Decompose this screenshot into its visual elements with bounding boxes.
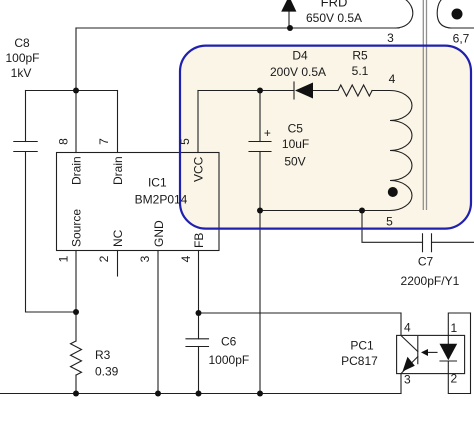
wire: R5 to winding 4: [372, 90, 390, 92]
capacitor C6 plates: [186, 339, 209, 347]
wire: C6 bottom lead: [198, 347, 200, 394]
optocoupler PC1 body: [397, 335, 465, 373]
svg-text:2: 2: [97, 255, 111, 262]
resistor R5: [338, 85, 372, 96]
polarity dot secondary winding: [452, 9, 463, 20]
svg-text:Drain: Drain: [70, 156, 84, 185]
diode D4 cathode bar: [293, 82, 295, 99]
svg-text:FB: FB: [192, 233, 206, 248]
diode FRD stem: [288, 12, 290, 28]
wire: top rail drain to primary: [76, 27, 399, 29]
svg-text:C7: C7: [418, 255, 434, 269]
wire: opto pin3 lead: [400, 374, 402, 394]
wire: drain horizontal rail: [26, 90, 118, 92]
svg-text:3: 3: [138, 255, 152, 262]
svg-text:BM2P014: BM2P014: [135, 193, 188, 207]
junction: C5 top: [257, 88, 263, 94]
blue region outline: [180, 46, 471, 229]
wire: pin7 riser: [117, 91, 119, 153]
wire: drain riser top: [75, 28, 77, 91]
svg-text:6,7: 6,7: [453, 32, 470, 46]
svg-text:5.1: 5.1: [352, 64, 369, 78]
svg-text:2: 2: [451, 372, 458, 386]
transformer primary winding end 3: [396, 0, 413, 28]
wire: C8 top lead: [25, 91, 27, 142]
wire: pin4 FB down: [198, 251, 200, 339]
svg-text:0.39: 0.39: [95, 365, 119, 379]
opto phototransistor bar: [417, 337, 419, 364]
svg-text:C5: C5: [288, 122, 304, 136]
opto LED leads: [447, 335, 449, 373]
opto LED cathode bar: [440, 360, 457, 362]
svg-text:4: 4: [179, 255, 193, 262]
resistor R3: [71, 341, 82, 375]
svg-text:5: 5: [178, 138, 192, 145]
svg-text:R3: R3: [95, 348, 111, 362]
svg-text:200V 0.5A: 200V 0.5A: [270, 65, 326, 79]
svg-text:IC1: IC1: [148, 176, 167, 190]
svg-text:3: 3: [404, 373, 411, 387]
svg-text:1000pF: 1000pF: [209, 353, 250, 367]
svg-text:VCC: VCC: [192, 156, 206, 182]
wire: secondary 6,7 out: [449, 27, 474, 29]
wire: VCC riser pin5: [197, 91, 199, 153]
wire: winding 5 return: [260, 210, 390, 212]
svg-text:Drain: Drain: [111, 156, 125, 185]
wire: R3 bottom: [75, 375, 77, 394]
opto emitter arrow head: [403, 357, 415, 372]
opto collector lead: [402, 336, 418, 352]
svg-text:D4: D4: [292, 49, 308, 63]
opto LED body: [440, 344, 458, 361]
svg-text:C8: C8: [14, 36, 30, 50]
capacitor C5 plates: [249, 142, 271, 152]
junction: ground aux: [257, 391, 263, 397]
junction: FB node: [196, 310, 202, 316]
wire: C8 bottom lead down to source net: [26, 152, 77, 313]
opto light arrow shaft: [426, 351, 437, 353]
polarity dot aux winding: [388, 187, 398, 197]
opto emitter lead: [401, 357, 418, 374]
junction: C5 bottom: [257, 208, 263, 214]
junction: drain node: [73, 88, 79, 94]
junction: ground C6: [196, 391, 202, 397]
wire: VCC rail to D4: [198, 90, 294, 92]
wire: aux ground descender: [259, 211, 261, 394]
svg-text:PC1: PC1: [350, 339, 374, 353]
IC1 body: [57, 153, 220, 251]
svg-text:4: 4: [389, 72, 396, 86]
wire: ground bus: [0, 393, 401, 395]
wire: D4 to R5: [313, 90, 338, 92]
svg-text:1: 1: [57, 255, 71, 262]
svg-text:GND: GND: [152, 220, 166, 247]
capacitor C7: [423, 234, 432, 252]
wire: FB feedback rail to opto: [199, 312, 402, 314]
wire: C5 bottom lead: [259, 152, 261, 211]
junction: ground R3: [73, 391, 79, 397]
secondary/aux region highlight (blue rounded box with cream fill): [180, 46, 471, 229]
svg-text:100pF: 100pF: [5, 51, 39, 65]
svg-text:1: 1: [451, 321, 458, 335]
diode D4 body: [295, 83, 313, 99]
svg-text:5: 5: [386, 215, 393, 229]
diode FRD body: [281, 0, 296, 12]
wire: pin3 GND down: [157, 251, 159, 394]
svg-text:8: 8: [57, 138, 71, 145]
junction: source node: [73, 309, 79, 315]
svg-text:3: 3: [387, 31, 394, 45]
wire: C7 right lead: [432, 241, 474, 243]
svg-text:NC: NC: [111, 229, 125, 247]
svg-text:+: +: [264, 126, 271, 140]
svg-text:PC817: PC817: [341, 354, 378, 368]
junction: FRD anode: [287, 25, 293, 31]
svg-text:4: 4: [404, 321, 411, 335]
wire: pin8 riser: [75, 91, 77, 153]
svg-text:50V: 50V: [284, 155, 305, 169]
junction: winding 5 node: [359, 208, 365, 214]
wire: opto pin2 bottom: [448, 374, 470, 394]
transformer core: [423, 0, 426, 210]
svg-text:Source: Source: [70, 209, 84, 247]
svg-text:2200pF/Y1: 2200pF/Y1: [401, 274, 460, 288]
svg-text:C6: C6: [221, 335, 237, 349]
svg-text:7: 7: [97, 138, 111, 145]
svg-text:R5: R5: [352, 49, 368, 63]
wire: opto pin1 top: [448, 313, 470, 335]
svg-text:FRD: FRD: [321, 0, 348, 10]
wire: C5 top lead: [259, 91, 261, 142]
wire: opto pin4 lead: [400, 313, 402, 335]
svg-text:10uF: 10uF: [282, 137, 309, 151]
transformer aux winding 4-5: [390, 91, 412, 211]
svg-text:1kV: 1kV: [11, 66, 32, 80]
wire: pin1 source down: [75, 251, 77, 342]
junction: ground pin3: [155, 391, 161, 397]
wire: to C7: [362, 211, 423, 243]
wire: pin2 NC stub: [117, 251, 119, 277]
transformer secondary winding end 6,7: [437, 0, 451, 28]
wire: right loop edge: [470, 313, 472, 394]
svg-text:650V 0.5A: 650V 0.5A: [306, 11, 362, 25]
capacitor C8: [14, 142, 37, 152]
opto light arrow head: [421, 349, 428, 356]
